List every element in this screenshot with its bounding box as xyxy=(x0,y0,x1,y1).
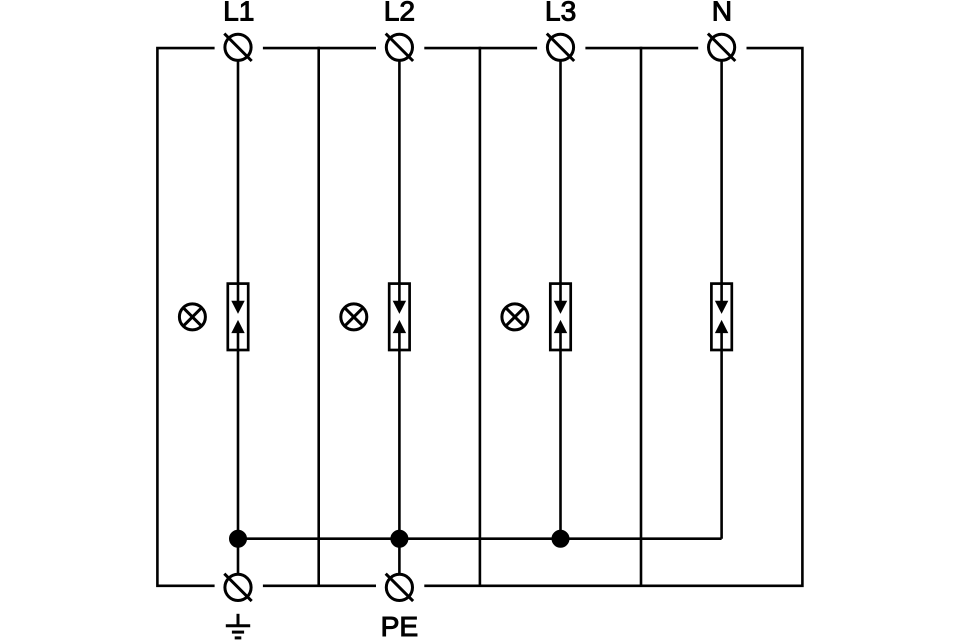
wire: L2 junction down to bottom terminal xyxy=(398,539,401,574)
wire: L2 column, arrester to PE bus xyxy=(398,331,401,539)
terminal L3 (circle with slash) xyxy=(547,34,574,61)
wire: vertical link L1-L2 (top bus to bottom line) xyxy=(317,47,320,586)
surge arrester on N (box with opposing arrows) xyxy=(711,284,731,350)
terminal L2 (circle with slash) xyxy=(386,34,413,61)
svg-text:N: N xyxy=(712,0,732,27)
wire: vertical link L3-N (top bus to bottom line) xyxy=(640,47,643,586)
svg-text:PE: PE xyxy=(381,610,419,640)
wire: L2 column, terminal to arrester xyxy=(398,61,401,303)
junction dot L2/PE bus xyxy=(391,530,408,547)
surge arrester on L1 (box with opposing arrows) xyxy=(228,284,248,350)
terminal N (circle with slash) xyxy=(708,34,735,61)
wire: L3 column, arrester to PE bus xyxy=(559,331,562,539)
wire: N column, arrester to PE bus xyxy=(720,331,723,539)
wire: top bus segment left of L1 terminal (with left box corner) xyxy=(157,48,214,586)
wire: top bus segment right of N terminal with right box edge and bottom line to L2 terminal xyxy=(424,48,802,586)
wire: top bus segment between L3 and N terminals xyxy=(585,47,698,50)
wire: L1 junction down to bottom terminal xyxy=(237,539,240,574)
defect indicator lamp for L3 (circle with X) xyxy=(502,304,528,330)
svg-text:L3: L3 xyxy=(545,0,576,27)
junction dot L3/PE bus xyxy=(552,530,569,547)
wire: L1 column, arrester to PE bus xyxy=(237,331,240,539)
surge arrester on L3 (box with opposing arrows) xyxy=(550,284,570,350)
wire: L1 column, terminal to arrester xyxy=(237,61,240,303)
wire: top bus segment between L2 and L3 terminals xyxy=(424,47,537,50)
surge arrester on L2 (box with opposing arrows) xyxy=(389,284,409,350)
wire: vertical link L2-L3 (top bus to bottom line) xyxy=(479,47,482,586)
junction dot L1/PE bus xyxy=(230,530,247,547)
defect indicator lamp for L2 (circle with X) xyxy=(341,304,367,330)
wire: L3 column, terminal to arrester xyxy=(559,61,562,303)
ground (earth symbol below left bottom terminal) xyxy=(226,614,250,638)
wire: top bus segment between L1 and L2 terminals xyxy=(263,47,376,50)
bottom terminal (earth) (circle with slash) xyxy=(224,574,251,601)
svg-text:L1: L1 xyxy=(223,0,254,27)
wire: bottom line segment between bottom terminals (L1 to L2) xyxy=(263,584,376,587)
defect indicator lamp for L1 (circle with X) xyxy=(179,304,205,330)
svg-text:L2: L2 xyxy=(384,0,415,27)
wire: N column, terminal to arrester xyxy=(720,61,723,303)
wire: PE bus (horizontal, L1 to N column) xyxy=(238,537,722,540)
terminal L1 (circle with slash) xyxy=(224,34,251,61)
bottom terminal PE (circle with slash) xyxy=(386,574,413,601)
